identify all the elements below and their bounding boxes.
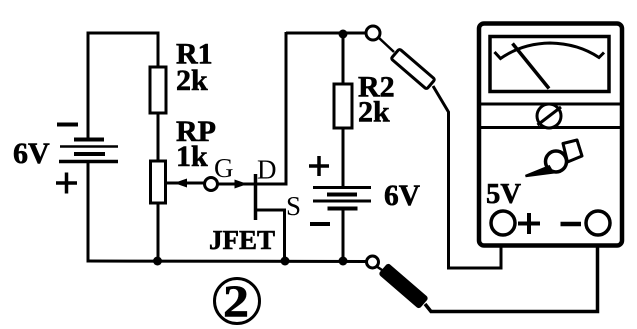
terminal node bottom [367, 256, 379, 268]
junction dot S [281, 257, 290, 266]
wire top-right segment [286, 32, 367, 35]
wire top-left [87, 32, 160, 35]
black probe body [378, 263, 429, 310]
svg-text:2k: 2k [176, 64, 208, 97]
multimeter body [479, 24, 622, 246]
terminal - of meter [586, 211, 610, 235]
B2 minus sign [310, 222, 330, 226]
panel separator lines [477, 103, 624, 106]
gate wire with arrow [218, 183, 257, 186]
wire R2-B2 [342, 128, 345, 188]
bottom wire [87, 260, 367, 264]
red probe wire lower [433, 86, 501, 268]
svg-text:G: G [214, 153, 234, 183]
battery B1 6V [59, 33, 118, 262]
RP wiper arrow [166, 182, 205, 185]
wire R1-RP [157, 113, 160, 161]
B1 plus sign [56, 173, 77, 194]
JFET Q1 [256, 32, 288, 262]
potentiometer RP [151, 161, 166, 203]
svg-text:1k: 1k [176, 140, 208, 173]
wire R2 top [342, 33, 345, 85]
range knob [526, 140, 583, 176]
junction dot B2 [339, 257, 348, 266]
red probe body [391, 49, 435, 90]
battery B2 6V [313, 188, 371, 263]
minus sign [561, 222, 582, 227]
terminal + of meter [491, 211, 515, 235]
resistor R1 [150, 67, 166, 113]
terminal node top [366, 26, 380, 40]
svg-text:6V: 6V [13, 137, 50, 170]
svg-text:JFET: JFET [209, 225, 275, 255]
meter scale arc [495, 43, 605, 59]
junction dot RP [153, 257, 162, 266]
node G circle [205, 178, 218, 191]
svg-text:2: 2 [223, 277, 249, 327]
junction dot top [339, 30, 348, 39]
svg-text:6V: 6V [384, 179, 420, 212]
black probe wire lower [425, 234, 598, 312]
red probe wire upper [378, 37, 394, 52]
wire R1 top [157, 33, 160, 68]
svg-text:S: S [286, 191, 301, 221]
meter needle [513, 44, 550, 89]
svg-text:D: D [257, 155, 277, 185]
plus sign [518, 213, 540, 234]
black probe wire upper [376, 266, 385, 272]
B1 minus sign [57, 123, 78, 127]
zero-adjust screw [537, 104, 561, 128]
meter display window [490, 37, 609, 92]
wire RP bottom [157, 203, 160, 262]
svg-text:5V: 5V [486, 179, 521, 210]
svg-text:2k: 2k [358, 96, 390, 129]
figure number 2 [215, 279, 260, 324]
B2 plus sign [309, 156, 329, 176]
resistor R2 [334, 84, 352, 128]
